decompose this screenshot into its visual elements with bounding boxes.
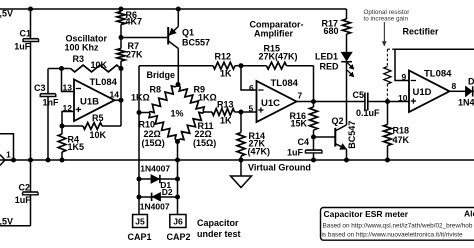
svg-text:1KΩ: 1KΩ	[198, 93, 217, 103]
svg-text:R10: R10	[139, 120, 156, 130]
svg-text:1,5V: 1,5V	[0, 8, 13, 18]
svg-text:C2: C2	[19, 183, 31, 193]
svg-text:10K: 10K	[91, 60, 108, 70]
svg-text:(15Ω): (15Ω)	[193, 138, 216, 148]
svg-text:D2: D2	[162, 187, 173, 197]
svg-text:10K: 10K	[90, 130, 107, 140]
svg-text:1N4007: 1N4007	[140, 202, 170, 212]
svg-text:5: 5	[249, 103, 254, 113]
svg-text:8: 8	[452, 81, 457, 91]
svg-text:1KΩ: 1KΩ	[131, 92, 150, 102]
svg-text:Amplifier: Amplifier	[254, 29, 294, 39]
svg-text:27K(47K): 27K(47K)	[259, 52, 298, 62]
svg-text:1%: 1%	[171, 109, 184, 119]
svg-text:BC557: BC557	[182, 37, 210, 47]
svg-text:R5: R5	[92, 113, 104, 123]
svg-text:RED: RED	[320, 62, 340, 72]
svg-text:Virtual Ground: Virtual Ground	[248, 163, 311, 173]
svg-text:J6: J6	[173, 216, 183, 226]
svg-text:to increase gain: to increase gain	[364, 16, 409, 23]
svg-text:6: 6	[249, 83, 254, 93]
svg-text:10: 10	[398, 93, 408, 103]
svg-text:27K: 27K	[126, 49, 143, 59]
svg-text:14: 14	[110, 90, 120, 100]
svg-text:12: 12	[63, 103, 73, 113]
svg-text:Rectifier: Rectifier	[403, 27, 440, 37]
svg-text:15K: 15K	[291, 118, 308, 128]
svg-text:9: 9	[402, 72, 407, 82]
svg-text:TL084: TL084	[271, 78, 299, 89]
svg-text:1K5: 1K5	[68, 142, 85, 152]
svg-text:TL084: TL084	[424, 69, 452, 80]
svg-text:C3: C3	[34, 83, 46, 93]
svg-text:under test: under test	[197, 229, 241, 239]
svg-text:Based on http://www.qsl.net/iz: Based on http://www.qsl.net/iz7ath/web/0…	[323, 222, 473, 229]
svg-text:LED1: LED1	[315, 52, 338, 62]
svg-text:CAP1: CAP1	[128, 232, 152, 242]
svg-text:47K: 47K	[393, 135, 410, 145]
svg-text:TL084: TL084	[90, 77, 118, 88]
svg-text:D3: D3	[468, 76, 474, 86]
svg-text:13: 13	[63, 82, 73, 92]
svg-text:C5: C5	[353, 90, 365, 100]
svg-text:U1C: U1C	[261, 98, 280, 109]
svg-text:1,5V: 1,5V	[0, 216, 13, 226]
svg-text:Capacitor: Capacitor	[197, 218, 239, 228]
svg-text:R8: R8	[150, 85, 162, 95]
svg-text:Bridge: Bridge	[147, 70, 176, 80]
svg-text:1nF: 1nF	[43, 97, 60, 107]
svg-text:is based on http://www.nuovael: is based on http://www.nuovaelettronica.…	[322, 231, 463, 238]
svg-text:(15Ω): (15Ω)	[142, 138, 165, 148]
svg-text:1: 1	[6, 150, 11, 160]
svg-text:Capacitor ESR meter: Capacitor ESR meter	[324, 209, 409, 219]
svg-text:U1D: U1D	[413, 87, 432, 98]
svg-text:1N4007: 1N4007	[458, 97, 474, 107]
svg-text:U1B: U1B	[80, 97, 99, 108]
svg-text:1uF: 1uF	[15, 195, 32, 205]
svg-text:7: 7	[298, 91, 303, 101]
svg-text:Ale: Ale	[464, 209, 474, 219]
svg-text:J5: J5	[135, 216, 145, 226]
svg-text:R13: R13	[217, 100, 234, 110]
svg-text:1K: 1K	[220, 116, 232, 126]
svg-text:CAP2: CAP2	[167, 232, 191, 242]
svg-text:1uF: 1uF	[287, 148, 304, 158]
svg-text:1N4007: 1N4007	[140, 163, 170, 173]
svg-text:C1: C1	[20, 29, 32, 39]
svg-text:100 Khz: 100 Khz	[65, 43, 100, 53]
svg-text:(47K): (47K)	[248, 146, 271, 156]
svg-text:C4: C4	[298, 137, 310, 147]
svg-text:Q2: Q2	[332, 116, 344, 126]
svg-text:1K: 1K	[220, 69, 232, 79]
svg-text:1uF: 1uF	[14, 42, 31, 52]
svg-text:680: 680	[324, 26, 339, 36]
svg-text:4K7: 4K7	[126, 17, 143, 27]
svg-text:BC547: BC547	[347, 121, 357, 149]
svg-text:R3: R3	[73, 54, 85, 64]
svg-text:Q1: Q1	[182, 27, 194, 37]
svg-text:R12: R12	[215, 52, 232, 62]
